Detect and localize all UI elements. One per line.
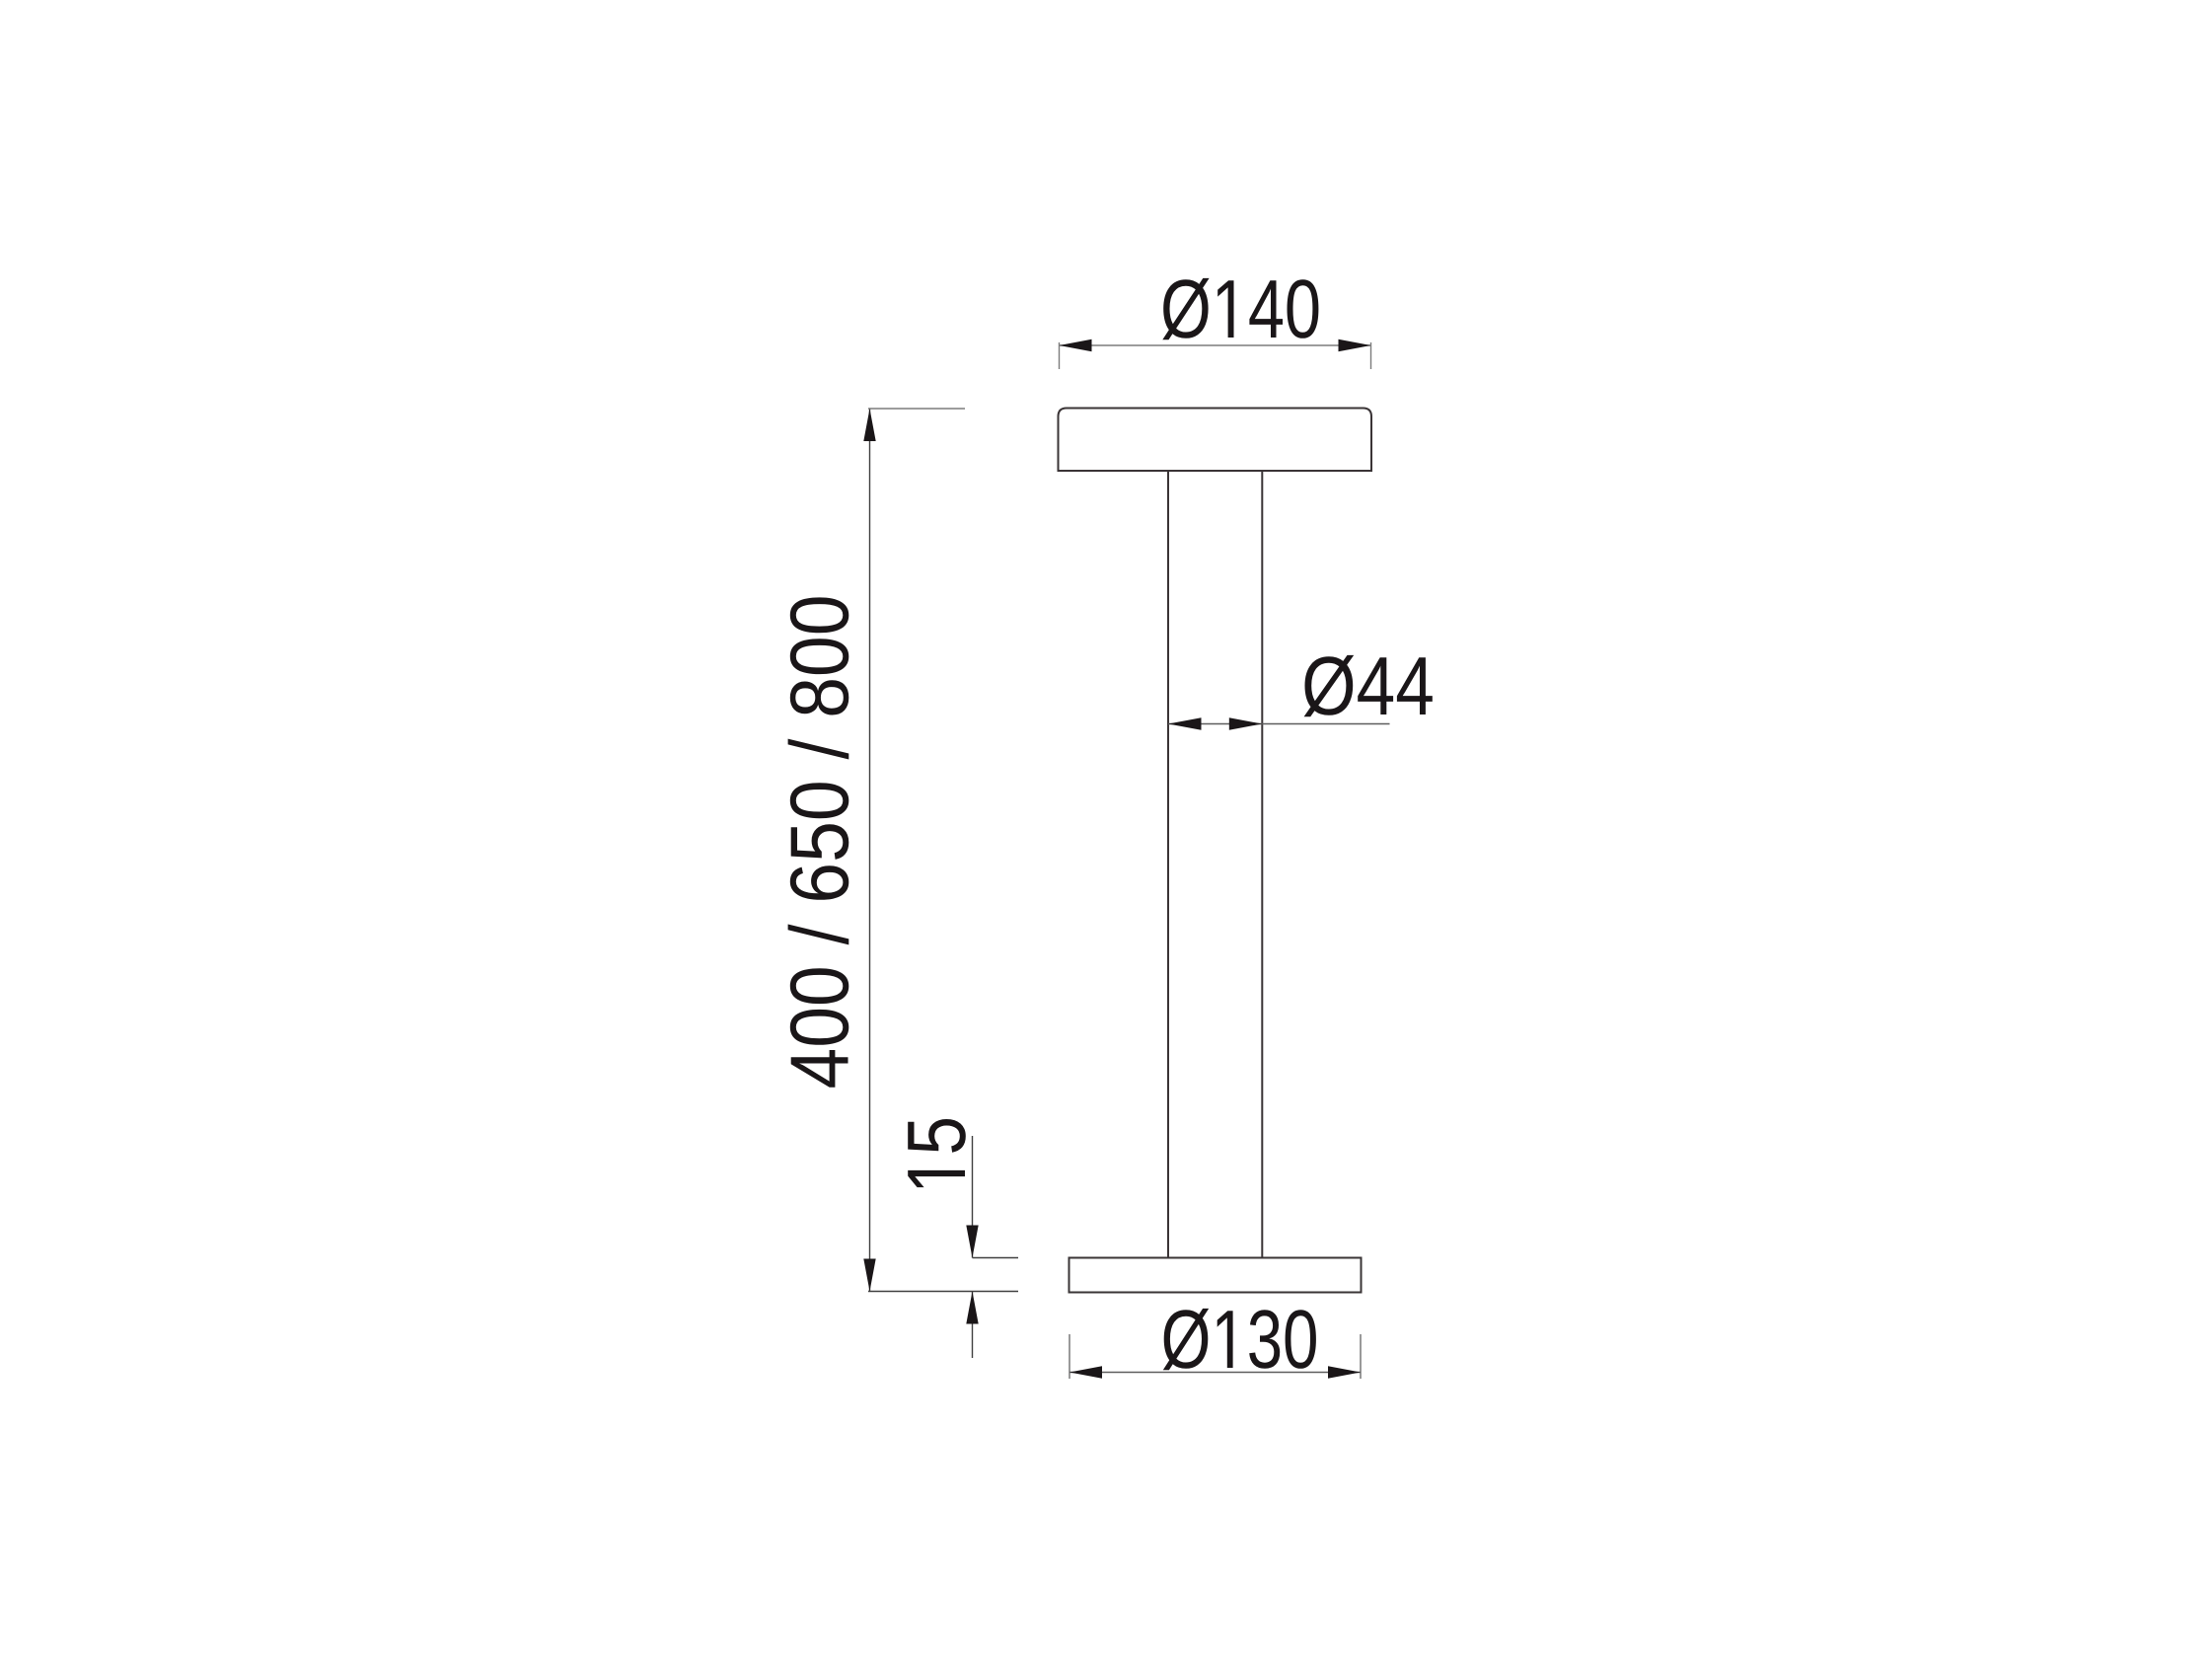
dimension D44 right arrowhead	[1229, 717, 1263, 729]
dimension D140 text	[1162, 278, 1318, 339]
pole left wall	[1167, 471, 1169, 1258]
dimension D130 left extension tick	[1069, 1334, 1070, 1379]
height dimension top arrowhead	[863, 409, 875, 441]
height dimension line	[869, 409, 871, 1292]
dimension D130 right arrowhead	[1328, 1366, 1361, 1378]
dimension D130 text	[1163, 1309, 1316, 1370]
top cap	[1059, 409, 1372, 472]
dimension 15 reference tick at base top	[973, 1257, 1019, 1259]
dimension D140 line	[1060, 344, 1371, 346]
dimension D44 left arrowhead	[1168, 717, 1202, 729]
dimension D130 line	[1069, 1372, 1361, 1374]
height dimension text 400 / 650 / 800	[788, 597, 849, 1087]
height dimension bottom arrowhead	[863, 1259, 875, 1292]
dimension 15 lower arrowhead pointing up	[966, 1292, 978, 1324]
dimension D44 leader line	[1168, 723, 1390, 725]
dimension 15 upper line	[972, 1136, 974, 1258]
dimension D130 left arrowhead	[1069, 1366, 1102, 1378]
dimension 15 upper arrowhead pointing down	[966, 1226, 978, 1258]
base plate	[1069, 1258, 1362, 1293]
dimension D44 text	[1304, 655, 1433, 716]
dimension D140 right extension tick	[1370, 342, 1372, 369]
height dimension top extension line	[868, 408, 965, 410]
dimension D140 right arrowhead	[1339, 339, 1371, 351]
pole right wall	[1261, 471, 1263, 1258]
dimension D140 left arrowhead	[1060, 339, 1092, 351]
dimension D130 right extension tick	[1360, 1334, 1362, 1379]
dimension D140 left extension tick	[1059, 342, 1061, 369]
dimension 15 text	[908, 1119, 966, 1187]
height dimension bottom extension line	[868, 1291, 1018, 1293]
dimension 15 lower line	[972, 1292, 974, 1359]
